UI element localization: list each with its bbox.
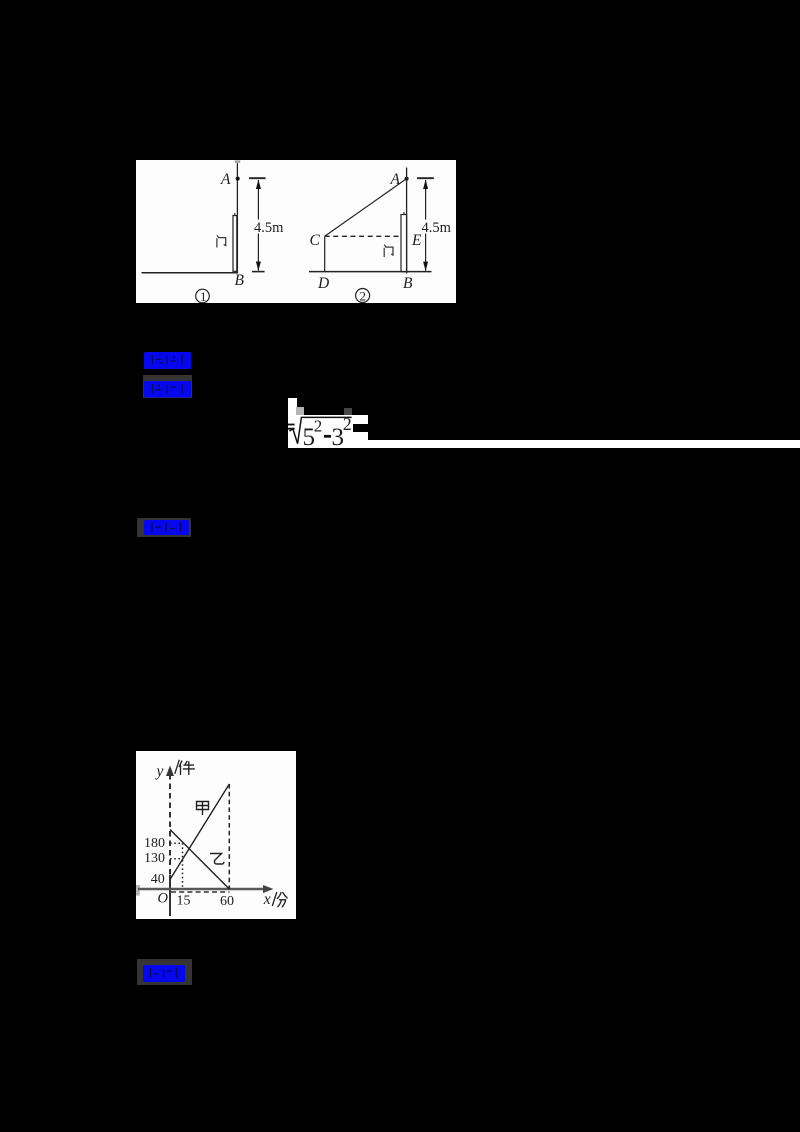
circled 1 caption — [196, 289, 210, 304]
svg-text:y: y — [155, 763, 164, 780]
gray box behind second blue tag — [143, 375, 193, 398]
dashed segment under x axis — [171, 891, 230, 893]
svg-text:60: 60 — [220, 894, 234, 909]
dotted vertical at x=15 — [182, 843, 184, 888]
equation selection handle dark — [344, 408, 352, 416]
svg-text:180: 180 — [144, 836, 165, 851]
wall CD (fig 2) — [324, 236, 326, 271]
svg-text:x: x — [263, 891, 271, 908]
equation selection handle light — [296, 407, 304, 415]
point A dot (fig 1) — [236, 176, 240, 180]
svg-text:D: D — [317, 274, 329, 291]
door top notch (fig 1) — [234, 213, 236, 216]
measure arrowhead down (fig 1) — [256, 261, 261, 270]
dashed line CE (fig 2) — [325, 235, 401, 237]
svg-text:B: B — [403, 274, 413, 291]
line jia rising — [170, 784, 229, 880]
gray tick above pole top (fig 1) — [235, 160, 240, 162]
measure arrow stem (fig 1) — [257, 180, 259, 271]
door top notch (fig 2) — [403, 212, 405, 215]
blue tag fenxi (analysis) — [143, 351, 192, 370]
white line strip to right edge — [288, 440, 800, 448]
svg-text:A: A — [220, 170, 231, 187]
y axis title jian glyph — [179, 761, 194, 775]
svg-text:2: 2 — [343, 414, 352, 434]
line label yi glyph — [210, 854, 224, 865]
y axis title slash — [175, 760, 180, 774]
dotted horizontal at y=130 — [170, 858, 183, 860]
measure arrow stem (fig 2) — [425, 180, 427, 271]
dashed vertical at x=60 — [228, 784, 230, 889]
svg-text:E: E — [411, 232, 422, 249]
equals sign fragment — [288, 424, 295, 426]
circled 2 caption — [356, 288, 370, 303]
equation white main patch — [288, 415, 368, 449]
minus sign — [324, 435, 331, 438]
measure arrowhead up (fig 1) — [256, 179, 261, 188]
ladder AC (fig 2) — [325, 178, 407, 236]
measure bottom bar (fig 1) — [252, 270, 265, 272]
gray box behind third blue tag — [137, 518, 191, 537]
svg-text:4.5m: 4.5m — [422, 219, 452, 235]
blue tag jieda 2 (answer) — [142, 964, 186, 983]
measure top bar (fig 2) — [417, 177, 434, 179]
svg-text:2: 2 — [314, 417, 323, 436]
y axis arrowhead — [166, 766, 174, 777]
formula sqrt(5^2-3^2) — [286, 396, 368, 452]
x axis arrowhead — [263, 885, 274, 893]
svg-text:40: 40 — [151, 872, 165, 887]
svg-text:1: 1 — [200, 289, 207, 303]
blue tag jieda (answer) — [143, 380, 192, 398]
svg-text:130: 130 — [144, 851, 165, 866]
white background of graph image — [136, 751, 296, 919]
svg-text:15: 15 — [177, 893, 191, 908]
equation white notch top-left — [288, 398, 297, 415]
door rectangle (fig 2) — [401, 214, 407, 271]
graph image: y vs x lines jia and yi — [136, 751, 296, 919]
y axis solid lower part — [169, 875, 171, 916]
dotted horizontal at y=180 — [170, 842, 183, 844]
white background of figure image — [136, 160, 456, 303]
gray notch at left edge — [136, 885, 140, 896]
pole AB (fig 1) — [236, 163, 238, 273]
measure arrowhead up (fig 2) — [423, 179, 428, 188]
line label jia glyph — [197, 802, 209, 816]
y axis dashed upper part — [169, 774, 171, 875]
ground line (fig 2) — [309, 270, 432, 272]
svg-text:A: A — [390, 170, 401, 187]
door label men (fig 1) — [217, 235, 226, 246]
x axis — [138, 888, 267, 891]
radical sign — [290, 417, 352, 443]
measure top bar (fig 1) — [249, 177, 266, 179]
black cursor dash after formula — [353, 424, 368, 432]
blue tag dianping (comment) — [143, 519, 190, 536]
svg-text:O: O — [158, 890, 169, 906]
white patch behind 4.5m (fig 1) — [253, 219, 283, 233]
gray box behind fourth blue tag — [137, 959, 193, 985]
door rectangle (fig 1) — [233, 215, 237, 271]
x axis title fen glyph — [277, 893, 287, 907]
figure image: doors and ladders diagram — [136, 160, 456, 303]
svg-text:C: C — [310, 231, 321, 248]
svg-text:2: 2 — [360, 288, 367, 303]
x axis title slash — [272, 892, 277, 906]
measure arrowhead down (fig 2) — [423, 261, 428, 270]
svg-text:4.5m: 4.5m — [254, 219, 284, 235]
line yi falling — [170, 830, 229, 890]
svg-text:B: B — [235, 272, 245, 289]
point A dot (fig 2) — [405, 176, 409, 180]
pole (fig 2) — [406, 167, 408, 273]
ground line (fig 1) — [142, 271, 238, 273]
white patch behind 4.5m (fig 2) — [419, 219, 452, 233]
door label men (fig 2) — [384, 245, 393, 256]
